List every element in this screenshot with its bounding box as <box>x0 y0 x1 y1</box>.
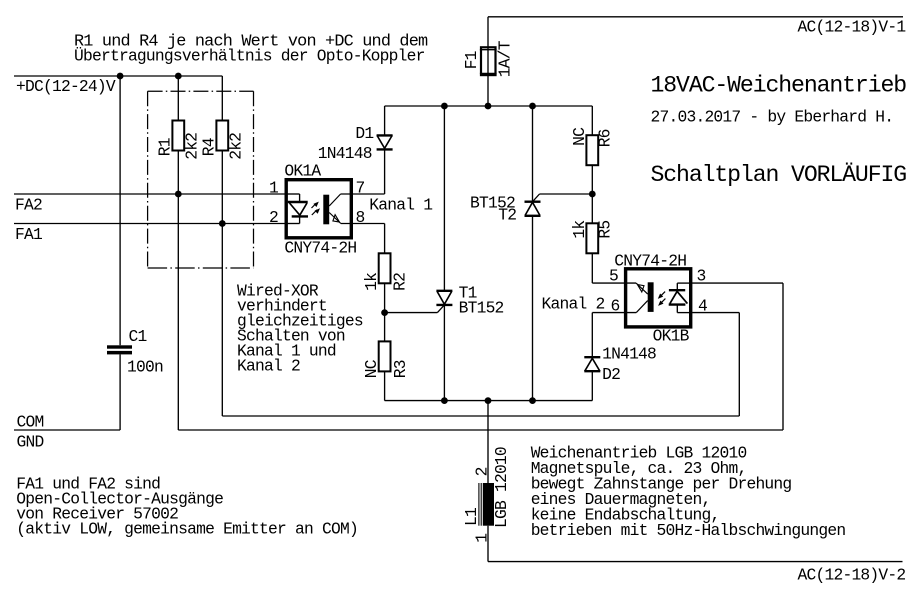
svg-text:7: 7 <box>356 179 365 198</box>
OK1B barrier bar <box>648 282 654 312</box>
junction on bus at T1 <box>441 103 448 110</box>
wire FA1 input line <box>14 223 285 225</box>
svg-text:1k: 1k <box>570 221 589 239</box>
svg-text:1: 1 <box>472 534 491 543</box>
junction on bus at F1 <box>485 103 492 110</box>
svg-text:GND: GND <box>17 433 44 452</box>
wire fuse top lead <box>487 17 489 47</box>
svg-text:5: 5 <box>609 266 618 285</box>
junction +DC at R1 <box>175 73 182 80</box>
svg-text:R2: R2 <box>391 273 410 291</box>
svg-text:D1: D1 <box>355 124 373 143</box>
wire FA2 net routing to OK1B pin3 <box>177 194 179 430</box>
resistor R1 <box>177 76 179 121</box>
OK1A LED input <box>285 193 300 195</box>
junction on rail at T1 <box>441 397 448 404</box>
svg-text:1N4148: 1N4148 <box>318 144 372 163</box>
svg-text:R3: R3 <box>391 360 410 378</box>
wire T1 gate <box>385 312 438 314</box>
svg-text:FA1: FA1 <box>15 225 42 244</box>
svg-text:1N4148: 1N4148 <box>602 345 656 364</box>
wire FA2 input line <box>14 193 285 195</box>
resistor R5 <box>591 253 593 283</box>
junction +DC at C1 <box>117 73 124 80</box>
svg-text:Kanal 2: Kanal 2 <box>237 356 300 375</box>
junction FA2 / R1 <box>175 191 182 198</box>
wire +DC(12-24)V rail <box>14 75 222 77</box>
svg-text:D2: D2 <box>602 365 620 384</box>
svg-text:2k2: 2k2 <box>227 133 246 160</box>
svg-text:Kanal 2: Kanal 2 <box>542 295 605 314</box>
svg-text:4: 4 <box>698 297 707 316</box>
resistor R3 <box>384 313 386 342</box>
dash-dot frame around R1/R4 <box>148 91 254 268</box>
op-amp OK1A optocoupler CNY74-2H channel A <box>286 180 351 238</box>
svg-text:3: 3 <box>697 266 706 285</box>
thyristor T2 BT152 <box>532 106 534 202</box>
svg-text:6: 6 <box>611 297 620 316</box>
svg-text:R4: R4 <box>200 138 219 156</box>
svg-text:2: 2 <box>472 467 491 476</box>
inductor L1 LGB 12010 coil <box>487 401 489 483</box>
junction on bus at T2 <box>529 103 536 110</box>
resistor R4 <box>221 76 223 121</box>
svg-text:BT152: BT152 <box>459 299 504 318</box>
svg-text:1A/T: 1A/T <box>495 40 514 77</box>
svg-text:1: 1 <box>269 179 278 198</box>
wire AC net bottom <box>488 561 903 563</box>
junction FA1 / R4 <box>219 220 226 227</box>
OK1A phototransistor <box>329 194 340 206</box>
fuse F1 <box>481 47 496 75</box>
thyristor T1 BT152 <box>443 106 445 291</box>
svg-text:NC: NC <box>362 359 381 378</box>
svg-text:AC(12-18)V-2: AC(12-18)V-2 <box>798 566 906 585</box>
wire OK1A pin7 to D1 <box>341 193 385 195</box>
svg-text:R5: R5 <box>596 221 615 239</box>
resistor R2 <box>384 224 386 254</box>
node R5/R6/T2-gate junction <box>589 191 596 198</box>
svg-text:2: 2 <box>269 208 278 227</box>
OK1B phototransistor <box>636 301 647 313</box>
wire OK1A pin8 to R2 <box>341 223 385 225</box>
svg-text:betrieben mit 50Hz-Halbschwing: betrieben mit 50Hz-Halbschwingungen <box>531 521 846 540</box>
OK1B light arrows <box>660 292 665 297</box>
svg-text:LGB 12010: LGB 12010 <box>492 447 511 528</box>
wire OK1B pin5 to R5 <box>592 282 636 284</box>
svg-text:Schaltplan VORLÄUFIG: Schaltplan VORLÄUFIG <box>651 161 907 188</box>
OK1A light arrows <box>312 203 317 208</box>
svg-text:NC: NC <box>570 127 589 146</box>
op-amp OK1B optocoupler CNY74-2H channel B <box>626 269 691 327</box>
svg-text:27.03.2017 - by Eberhard H.: 27.03.2017 - by Eberhard H. <box>651 107 894 126</box>
diode D2 1N4148 <box>591 371 593 400</box>
resistor R6 <box>591 165 593 194</box>
svg-text:L1: L1 <box>462 508 481 526</box>
node R2/R3/T1-gate junction <box>381 309 388 316</box>
wire AC bus (anode rail) <box>385 105 593 107</box>
wire bottom rail (cathode rail to L1) <box>385 400 593 402</box>
svg-text:FA2: FA2 <box>15 196 42 215</box>
svg-text:R1: R1 <box>156 138 175 156</box>
wire AC net top from fuse to right edge <box>488 16 903 18</box>
diode D1 1N4148 <box>384 106 386 135</box>
svg-text:T2: T2 <box>498 206 516 225</box>
svg-text:18VAC-Weichenantrieb: 18VAC-Weichenantrieb <box>651 73 907 99</box>
svg-text:+DC(12-24)V: +DC(12-24)V <box>16 77 116 96</box>
wire FA1 net routing to OK1B pin4 <box>221 224 223 417</box>
OK1A barrier bar <box>323 195 329 225</box>
svg-text:(aktiv LOW, gemeinsame Emitter: (aktiv LOW, gemeinsame Emitter an COM) <box>16 519 358 538</box>
svg-text:AC(12-18)V-1: AC(12-18)V-1 <box>798 18 906 37</box>
svg-text:C1: C1 <box>129 327 147 346</box>
svg-text:COM: COM <box>17 413 44 432</box>
junction on rail at T2 <box>529 397 536 404</box>
svg-text:R6: R6 <box>596 129 615 147</box>
wire OK1B pin6 to D2 <box>592 312 636 314</box>
wire T2 gate <box>540 193 593 195</box>
svg-text:CNY74-2H: CNY74-2H <box>284 239 356 258</box>
svg-text:OK1B: OK1B <box>653 327 690 346</box>
svg-text:OK1A: OK1A <box>284 162 321 181</box>
OK1B LED input <box>677 282 692 284</box>
svg-text:Kanal 1: Kanal 1 <box>369 196 432 215</box>
svg-text:F1: F1 <box>462 51 481 69</box>
svg-text:100n: 100n <box>127 358 163 377</box>
svg-text:8: 8 <box>356 208 365 227</box>
svg-text:Übertragungsverhältnis der Opt: Übertragungsverhältnis der Opto-Koppler <box>74 47 425 66</box>
svg-text:1k: 1k <box>362 273 381 291</box>
wire COM <box>14 429 120 431</box>
junction on rail at L1 <box>485 397 492 404</box>
svg-text:CNY74-2H: CNY74-2H <box>614 252 686 271</box>
capacitor C1 <box>119 76 121 345</box>
